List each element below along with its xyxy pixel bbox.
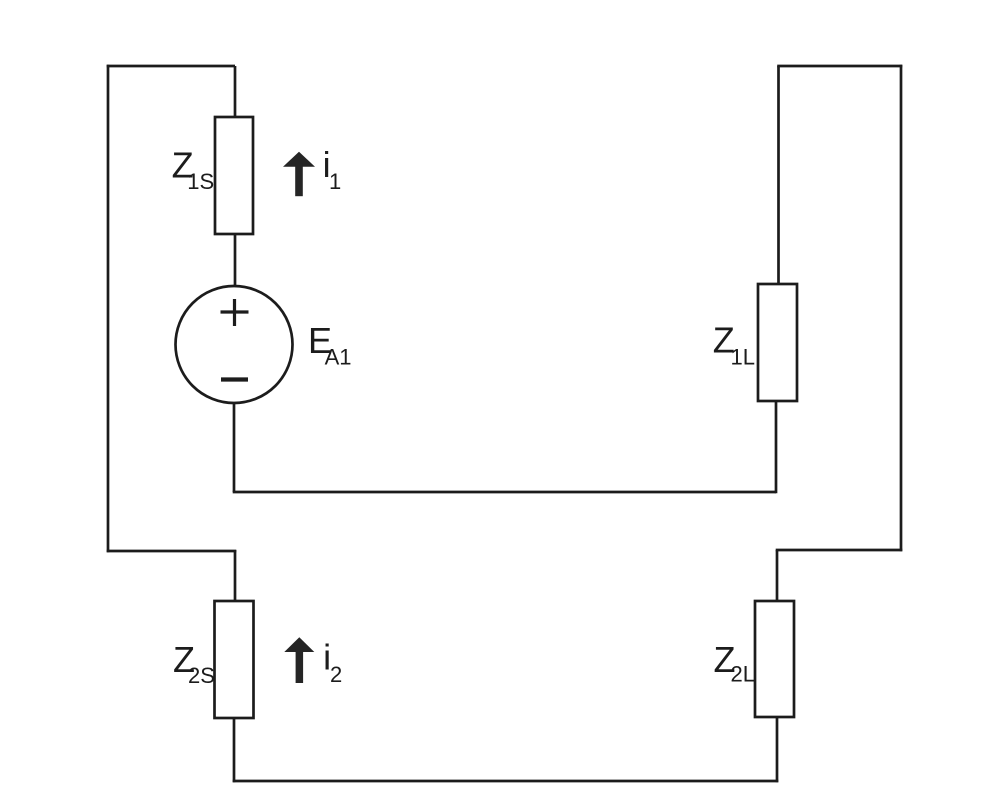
svg-text:1: 1 xyxy=(329,169,341,194)
resistor Z2S xyxy=(215,601,254,718)
svg-text:2S: 2S xyxy=(188,663,215,688)
wire right outer vertical xyxy=(900,65,903,552)
wire Z2L bottom lead xyxy=(776,717,779,782)
wire left outer vertical xyxy=(107,65,110,553)
resistor Z2L xyxy=(755,601,794,717)
svg-text:2: 2 xyxy=(330,662,342,687)
wire right shelf horizontal xyxy=(776,549,903,552)
wire bottom horizontal xyxy=(233,780,779,783)
plus sign of EA1 xyxy=(221,299,249,326)
resistor Z1L xyxy=(758,284,797,401)
svg-text:A1: A1 xyxy=(325,345,352,370)
label Z2S xyxy=(173,639,215,688)
current arrow i2 xyxy=(284,637,314,683)
wire Z1S top lead xyxy=(234,66,237,118)
resistor Z1S xyxy=(215,117,253,234)
current arrow i1 xyxy=(283,152,315,196)
wire top-right horizontal xyxy=(777,65,902,68)
wire source bottom lead xyxy=(233,403,236,492)
wire Z1S bottom to source top xyxy=(234,234,237,287)
svg-text:2L: 2L xyxy=(731,662,755,687)
label i2 xyxy=(323,636,342,687)
wire Z2L top lead xyxy=(776,550,779,602)
wire Z1L bottom lead xyxy=(775,401,778,493)
label Z1S xyxy=(172,144,215,194)
wire left shelf horizontal xyxy=(107,550,237,553)
voltage source EA1 xyxy=(176,286,293,403)
wire Z2S bottom lead xyxy=(233,718,236,782)
label i1 xyxy=(323,144,342,194)
wire Z2S top lead xyxy=(234,550,237,602)
minus sign of EA1 xyxy=(221,377,248,381)
svg-text:1S: 1S xyxy=(187,169,214,194)
wire top-left horizontal xyxy=(107,65,235,68)
svg-text:1L: 1L xyxy=(731,345,755,370)
label Z1L xyxy=(713,320,755,370)
wire Z1L top lead xyxy=(777,66,780,284)
label EA1 xyxy=(308,320,352,370)
wire middle horizontal xyxy=(233,491,776,494)
label Z2L xyxy=(714,639,755,687)
